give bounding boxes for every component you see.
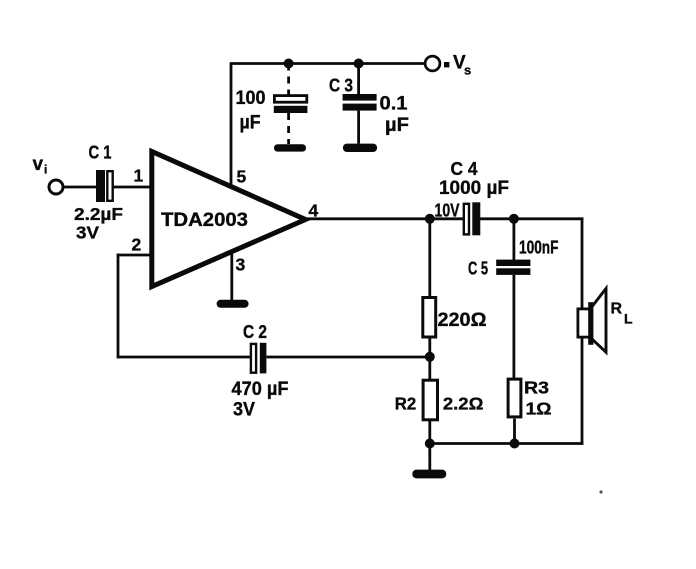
wire C5 upper lead <box>513 219 516 260</box>
svg-text:3: 3 <box>236 255 246 275</box>
svg-text:220Ω: 220Ω <box>438 310 487 331</box>
wire feedback bottom right segment <box>267 356 432 359</box>
capacitor C1 <box>96 170 113 202</box>
svg-text:2: 2 <box>132 235 142 255</box>
resistor R3 <box>508 379 521 444</box>
capacitor C2 <box>251 343 267 374</box>
capacitor C3 <box>343 64 377 144</box>
junction feedback node <box>425 352 435 362</box>
ground under 100uF <box>274 144 306 151</box>
svg-text:R: R <box>611 301 623 318</box>
svg-text:470 µF: 470 µF <box>232 379 289 400</box>
label vi <box>33 154 48 177</box>
wire feedback bottom left segment <box>117 356 250 359</box>
junction output node <box>425 214 435 224</box>
ground pin 3 <box>217 300 249 308</box>
svg-text:C 3: C 3 <box>329 76 353 96</box>
capacitor C4 <box>464 202 481 235</box>
wire pin 5 and rail drop <box>230 64 233 189</box>
svg-text:µF: µF <box>240 113 261 134</box>
wire speaker top lead <box>581 218 584 309</box>
svg-text:5: 5 <box>237 167 247 187</box>
wire C1 to pin 1 <box>114 186 152 189</box>
junction rail/C3 <box>354 59 364 69</box>
label +Vs <box>444 53 471 78</box>
svg-text:C 1: C 1 <box>89 143 112 163</box>
svg-text:3V: 3V <box>76 223 99 243</box>
svg-text:1000 µF: 1000 µF <box>439 178 509 199</box>
svg-text:C 2: C 2 <box>243 322 267 342</box>
resistor R2 <box>423 357 437 445</box>
svg-text:10V: 10V <box>435 201 460 221</box>
svg-text:1Ω: 1Ω <box>526 399 552 419</box>
svg-text:C 4: C 4 <box>451 159 478 179</box>
svg-text:4: 4 <box>309 201 319 221</box>
resistor 220 ohm <box>423 219 436 358</box>
terminal +Vs <box>425 56 440 71</box>
svg-text:0.1: 0.1 <box>380 94 408 115</box>
svg-text:TDA2003: TDA2003 <box>161 210 248 231</box>
scan speck <box>599 490 602 493</box>
ground main <box>412 444 446 479</box>
junction rail/100uF <box>284 59 294 69</box>
ground under C3 <box>343 144 377 152</box>
svg-text:2.2µF: 2.2µF <box>74 204 123 224</box>
capacitor 100uF (dashed leads) <box>274 64 308 145</box>
wire C4 to right corner <box>479 217 583 220</box>
svg-text:C 5: C 5 <box>468 259 488 279</box>
junction after C4 <box>509 214 519 224</box>
wire top supply rail <box>230 62 426 65</box>
svg-text:2.2Ω: 2.2Ω <box>443 394 484 414</box>
svg-text:100nF: 100nF <box>519 238 559 258</box>
label RL <box>611 301 634 327</box>
svg-text:µF: µF <box>385 115 409 136</box>
svg-text:s: s <box>464 63 471 78</box>
wire pin 2 <box>117 254 151 257</box>
op-amp U1 TDA2003 <box>152 152 306 287</box>
wire bottom rail <box>430 442 584 445</box>
svg-text:R3: R3 <box>524 378 549 398</box>
speaker RL <box>578 289 606 353</box>
wire pin 4 output <box>305 217 463 220</box>
wire C5 to R3 <box>513 275 516 379</box>
junction R3 bottom <box>510 439 520 449</box>
wire speaker bottom lead <box>581 338 584 445</box>
svg-text:1: 1 <box>134 166 144 186</box>
wire pin 3 <box>230 253 233 301</box>
svg-text:v: v <box>33 154 44 175</box>
junction bottom node <box>425 439 435 449</box>
wire Vi to C1 <box>64 186 97 189</box>
svg-text:R2: R2 <box>395 394 417 414</box>
svg-text:3V: 3V <box>233 400 255 421</box>
svg-text:i: i <box>44 163 47 177</box>
svg-text:100: 100 <box>236 88 266 109</box>
terminal Vi input <box>49 180 63 194</box>
wire feedback left vertical <box>117 254 120 359</box>
capacitor C5 <box>496 260 530 275</box>
svg-text:L: L <box>624 311 633 327</box>
